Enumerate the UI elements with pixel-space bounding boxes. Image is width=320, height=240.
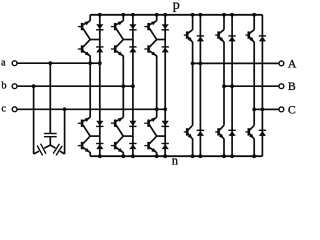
wire leg3 bottom mid connector: [157, 135, 166, 137]
diode DT11: [197, 36, 204, 42]
svg-text:n: n: [172, 154, 179, 168]
node inverter leg1 rail junctions: [191, 13, 203, 158]
node leg2 phase junctions: [121, 84, 134, 88]
node inverter leg2 output junctions: [222, 84, 234, 88]
wire inverter leg2 Q to n rail: [223, 139, 225, 157]
node inverter leg1 output junctions: [191, 62, 203, 66]
diode D11: [96, 24, 103, 30]
diode D21: [129, 24, 136, 30]
wire cap tap from c: [63, 107, 67, 154]
transistor T22: [215, 125, 224, 139]
wire leg3 top mid connector: [157, 39, 166, 41]
wire cap tap from b: [32, 84, 36, 154]
wire p rail: [90, 14, 262, 16]
transistor S23: [111, 117, 123, 136]
node leg2 rail junctions: [121, 13, 134, 158]
svg-text:C: C: [288, 102, 296, 116]
diode D14: [96, 144, 103, 150]
node leg1 phase junctions: [88, 61, 101, 65]
transistor S21: [111, 21, 123, 40]
transistor S33: [144, 117, 156, 136]
wire leg2 top mid connector: [123, 39, 133, 41]
node leg1 rail junctions: [98, 13, 102, 158]
node inverter leg2 rail junctions: [222, 13, 234, 158]
transistor T32: [245, 125, 254, 139]
wire leg2 top diode path: [132, 15, 134, 86]
wire leg3 top diode path: [164, 15, 166, 110]
wire rectifier leg2 top corner: [122, 15, 124, 21]
svg-text:b: b: [1, 80, 6, 91]
wire cap tap from a: [48, 61, 52, 133]
node input phase a terminal and wire: [1, 57, 100, 68]
node output phase A wire and terminal: [193, 56, 297, 70]
wire rectifier leg1 top corner: [89, 15, 91, 21]
capacitor Ca plates: [44, 134, 57, 137]
svg-text:B: B: [288, 79, 296, 93]
wire inverter leg3 top corner: [253, 15, 255, 30]
node leg3 phase junctions: [155, 107, 167, 111]
wire rectifier leg1 bottom corner: [89, 63, 91, 117]
transistor S11: [78, 21, 90, 40]
wire n rail: [90, 155, 262, 157]
transistor S34: [144, 136, 156, 153]
node output phase B wire and terminal: [224, 79, 296, 93]
wire inverter leg1 output to bottom corner: [192, 63, 194, 125]
wire leg1 bottom mid connector: [90, 135, 100, 137]
diode D13: [96, 121, 103, 127]
transistor S24: [111, 136, 123, 153]
wire leg1 bottom diode path: [99, 63, 101, 156]
diode D23: [129, 121, 136, 127]
wire rectifier leg2 bottom corner: [122, 86, 124, 117]
wire cap a lower: [49, 137, 51, 145]
wire leg3 bottom emitter to n rail: [156, 152, 158, 156]
wire leg2 bottom mid connector: [123, 135, 133, 137]
node inverter leg3 rail junctions: [252, 13, 256, 158]
node input phase c terminal and wire: [1, 103, 165, 114]
diode D32: [162, 47, 169, 53]
wire leg2 top emitter to phase: [122, 56, 124, 87]
node p label: [173, 0, 180, 13]
wire rectifier leg3 top corner: [156, 15, 158, 21]
wire inverter leg2 top corner: [223, 15, 225, 30]
diode D24: [129, 144, 136, 150]
capacitor Cb diagonal branch: [34, 144, 51, 156]
node output phase C wire and terminal: [254, 102, 296, 116]
diode DT12: [197, 130, 204, 136]
node input phase b terminal and wire: [1, 80, 133, 91]
transistor T11: [184, 30, 193, 43]
wire leg1 bottom emitter to n rail: [89, 152, 91, 156]
wire inverter leg3 Q to output: [253, 42, 255, 110]
diode DT22: [228, 130, 235, 136]
transistor T12: [184, 125, 193, 139]
transistor S22: [111, 40, 123, 57]
wire inverter leg2 diode path: [231, 15, 233, 156]
transistor S32: [144, 40, 156, 57]
transistor T31: [245, 30, 254, 43]
diode D22: [129, 47, 136, 53]
diode D33: [162, 121, 169, 127]
wire leg3 top emitter to phase: [156, 56, 158, 110]
svg-text:A: A: [288, 56, 297, 70]
transistor S12: [78, 40, 90, 57]
diode D12: [96, 47, 103, 53]
diode DT21: [228, 36, 235, 42]
wire inverter leg1 Q to n rail: [192, 139, 194, 157]
wire inverter leg3 output to bottom corner: [253, 109, 255, 125]
wire leg2 bottom diode path: [132, 86, 134, 156]
node inverter leg3 output junctions: [252, 108, 264, 112]
wire leg1 top emitter to phase: [89, 56, 91, 64]
node leg3 rail junctions: [155, 13, 167, 158]
svg-text:c: c: [1, 103, 6, 114]
diode DT31: [259, 36, 266, 42]
diode DT32: [259, 130, 266, 136]
wire rectifier leg3 bottom corner: [156, 109, 158, 117]
wire inverter leg3 Q to n rail: [253, 139, 255, 157]
svg-text:a: a: [1, 57, 6, 68]
wire inverter leg1 top corner: [192, 15, 194, 30]
wire inverter leg1 Q to output: [192, 42, 194, 64]
wire leg1 top diode path: [99, 15, 101, 63]
svg-text:p: p: [173, 0, 180, 13]
diode D34: [162, 144, 169, 150]
transistor T21: [215, 30, 224, 43]
wire leg3 bottom diode path: [164, 109, 166, 156]
transistor S31: [144, 21, 156, 40]
capacitor Cc diagonal branch: [50, 144, 64, 156]
wire inverter leg3 diode path: [261, 15, 263, 156]
transistor S14: [78, 136, 90, 153]
node n label: [172, 154, 179, 168]
wire inverter leg1 diode path: [199, 15, 201, 156]
wire inverter leg2 Q to output: [223, 42, 225, 86]
wire inverter leg2 output to bottom corner: [223, 86, 225, 125]
diode D31: [162, 24, 169, 30]
wire leg2 bottom emitter to n rail: [122, 152, 124, 156]
transistor S13: [78, 117, 90, 136]
wire leg1 top mid connector: [90, 39, 100, 41]
